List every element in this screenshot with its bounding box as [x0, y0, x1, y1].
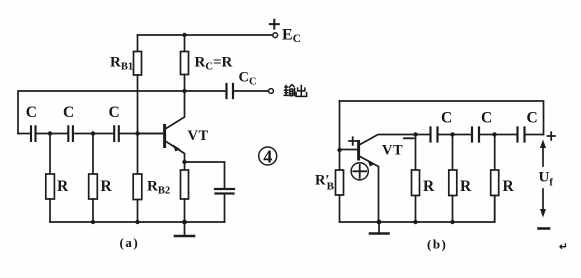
terminal output [269, 89, 274, 94]
capacitor C2b [472, 128, 479, 142]
svg-text:RB1: RB1 [110, 55, 133, 73]
arrow Uf bottom [542, 189, 544, 209]
label + Uf [548, 132, 556, 140]
svg-text:(a): (a) [120, 235, 140, 250]
svg-text:C: C [26, 104, 37, 121]
svg-text:EC: EC [282, 27, 301, 46]
svg-text:(b): (b) [427, 237, 447, 252]
resistor R1b [415, 135, 417, 171]
resistor R1 [49, 134, 51, 175]
svg-text:C: C [63, 104, 74, 121]
transistor VT (a) [138, 133, 164, 135]
resistor RB1 [137, 35, 139, 52]
svg-text:C: C [527, 110, 538, 127]
resistor RB2 [137, 134, 139, 175]
junction node 2 (b) [450, 132, 454, 136]
svg-text:VT: VT [188, 128, 209, 144]
resistor RC [184, 35, 186, 52]
label + Ec [270, 20, 279, 29]
junction base bias node [135, 131, 139, 135]
label shuchu (output) [284, 84, 307, 96]
terminal Ec [273, 33, 278, 38]
transistor VT (b) [357, 142, 360, 160]
junction top of RC [182, 33, 186, 37]
junction node 3 (b) [492, 132, 496, 136]
svg-text:↵: ↵ [559, 242, 568, 253]
wire bottom rail (b) [340, 196, 495, 223]
capacitor C1 [31, 126, 36, 141]
wire top rail (a) [138, 34, 273, 36]
capacitor C1b [431, 128, 438, 142]
svg-text:R: R [503, 178, 515, 195]
svg-text:R: R [423, 178, 435, 195]
junction node after C1 [48, 131, 52, 135]
wire base (b) [340, 149, 358, 151]
junction base node (b) [337, 148, 341, 152]
svg-text:R: R [101, 178, 113, 195]
svg-text:R′B: R′B [315, 173, 335, 193]
capacitor C3b [518, 128, 525, 142]
resistor R3b [494, 135, 496, 171]
svg-text:C: C [441, 110, 452, 127]
junction collector node [182, 89, 186, 93]
wire top rail (b) [340, 101, 544, 135]
label + at base [349, 137, 357, 145]
svg-text:VT: VT [382, 143, 403, 159]
label - Uf [539, 227, 550, 230]
svg-text:R: R [460, 178, 472, 195]
wire cap chain line [18, 133, 163, 135]
capacitor bypass [215, 189, 234, 194]
svg-text:R: R [57, 178, 69, 195]
ground (a) [184, 222, 186, 236]
resistor R'B [336, 170, 344, 195]
resistor R2 [92, 134, 94, 175]
wire bottom rail (a) [50, 221, 225, 223]
label - at collector [404, 137, 414, 139]
resistor R2b [452, 135, 454, 171]
svg-text:RC=R: RC=R [195, 55, 233, 73]
svg-text:Uf: Uf [539, 170, 554, 189]
wire emitter to bypass cap [185, 162, 225, 189]
junction emitter node [182, 160, 186, 164]
arrow Uf top [542, 147, 544, 166]
wire collector/feedback line [18, 91, 226, 134]
junction node after C2 [91, 131, 95, 135]
capacitor CC [227, 84, 234, 98]
resistor RE [184, 162, 186, 170]
ground (b) [378, 222, 380, 233]
source circle [351, 163, 368, 180]
svg-text:4: 4 [263, 146, 272, 166]
capacitor C2 [68, 126, 73, 141]
svg-text:C: C [481, 110, 492, 127]
svg-text:RB2: RB2 [147, 179, 170, 197]
svg-text:C: C [109, 104, 120, 121]
capacitor C3 [114, 126, 119, 141]
junction collector node (b) [413, 132, 417, 136]
svg-text:CC: CC [239, 70, 257, 88]
circled 4 [259, 147, 277, 165]
